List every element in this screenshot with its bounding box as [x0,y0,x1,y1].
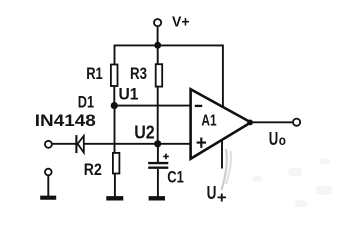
wire rail to R1 [114,45,116,65]
artifact gray strokes [222,149,227,190]
resistor R2 [113,153,120,174]
faint jpeg noise bottom right [252,158,332,207]
op-amp plus sign [197,138,206,148]
node U1 [111,102,118,109]
resistor R3 [156,64,163,86]
wire op-amp negative supply stub [221,140,223,169]
wire terminal to ground [47,176,49,197]
node top junction [154,42,161,49]
wire top rail [115,44,223,46]
wire U1 down to R2 [114,106,116,153]
svg-text:A1: A1 [201,113,216,130]
wire rail to R3 [157,45,159,64]
op-amp minus sign [195,105,202,107]
svg-text:U1: U1 [119,85,139,104]
wire R3 to node U2 [157,86,159,144]
ground input [40,196,56,200]
wire op-amp positive supply [222,45,224,108]
terminal ground input [45,169,52,176]
wire R2 to ground [114,174,116,197]
wire input to diode [52,143,75,145]
terminal Uo [293,119,300,126]
svg-text:U2: U2 [134,122,155,142]
svg-text:R3: R3 [130,64,147,83]
svg-text:D1: D1 [78,93,94,112]
svg-text:C1: C1 [167,168,184,187]
node output apex [247,120,253,126]
capacitor C1 [148,147,169,197]
svg-text:R1: R1 [86,64,103,83]
diode D1 [76,135,83,153]
svg-text:o: o [279,132,286,148]
ground R2 [106,196,123,200]
wire output [250,121,293,123]
terminal input [45,141,52,148]
svg-text:IN4148: IN4148 [35,111,96,130]
resistor R1 [111,65,118,87]
svg-text:U: U [269,129,279,149]
wire diode to noninverting input [84,143,191,145]
wire V+ stub [157,26,159,45]
node U2 [154,140,161,147]
op-amp A1 [191,89,251,159]
ground C1 [149,196,165,200]
svg-text:U: U [207,183,217,203]
svg-text:+: + [217,190,227,207]
terminal V+ [154,19,161,26]
wire U1 to inverting input [114,105,191,107]
svg-text:V+: V+ [172,14,190,31]
svg-text:R2: R2 [84,160,102,179]
wire R1 to node U1 [113,86,115,106]
